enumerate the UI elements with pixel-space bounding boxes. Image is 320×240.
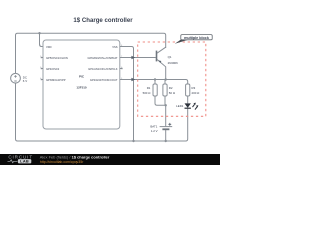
svg-text:multiple block: multiple block bbox=[184, 36, 210, 40]
svg-text:1$ Charge controller: 1$ Charge controller bbox=[73, 17, 133, 24]
pin stub GP1 unconnected bbox=[120, 68, 122, 70]
battery BAT1 bbox=[160, 123, 173, 141]
LED LED1 bbox=[185, 103, 199, 110]
footer CircuitLab logo bbox=[8, 155, 33, 164]
svg-text:GP2/AN2/T0CKI/COUT: GP2/AN2/T0CKI/COUT bbox=[90, 78, 118, 82]
svg-text:R3: R3 bbox=[192, 86, 196, 90]
svg-text:6 V: 6 V bbox=[23, 79, 27, 83]
transistor Q1 2N3906 bbox=[157, 47, 166, 79]
svg-text:GP3/MCLR/VPP: GP3/MCLR/VPP bbox=[46, 78, 66, 82]
resistor R1 bbox=[154, 80, 156, 85]
svg-text:200 Ω: 200 Ω bbox=[192, 91, 201, 95]
wire GP0 to base of Q1 bbox=[120, 57, 156, 59]
IC U1 PIC12F510 body bbox=[43, 40, 120, 129]
svg-text:BAT1: BAT1 bbox=[150, 125, 157, 129]
svg-text:Q1: Q1 bbox=[168, 55, 172, 59]
wire VDD branch bbox=[40, 33, 44, 46]
svg-text:2N3906: 2N3906 bbox=[168, 61, 179, 65]
svg-text:VSS: VSS bbox=[112, 45, 118, 49]
svg-text:VDD: VDD bbox=[46, 45, 52, 49]
svg-text:GP1/AN1/CIN-/ICSPCLK: GP1/AN1/CIN-/ICSPCLK bbox=[88, 67, 118, 71]
svg-text:GP0/AN0/CIN+/ICSPDAT: GP0/AN0/CIN+/ICSPDAT bbox=[88, 56, 118, 60]
svg-text:500 Ω: 500 Ω bbox=[143, 91, 152, 95]
wire VSS to ground column bbox=[120, 47, 134, 142]
footer bar bbox=[0, 154, 220, 165]
node marker on GP0 wire bbox=[131, 56, 135, 60]
svg-text:1.2 V: 1.2 V bbox=[151, 129, 158, 133]
node marker on GP2 wire bbox=[131, 78, 135, 82]
pin stub GP5 unconnected bbox=[41, 57, 43, 59]
callout multiple block bbox=[175, 35, 212, 44]
node R1/R2 bottom junction bbox=[165, 104, 167, 106]
pin stub GP4 unconnected bbox=[41, 68, 43, 70]
svg-text:50 Ω: 50 Ω bbox=[169, 91, 176, 95]
svg-text:LAB: LAB bbox=[20, 159, 29, 164]
wire bottom rail from V1 to LED bottom bbox=[16, 83, 188, 141]
svg-text:http://circuitlab.com/cpqv35r: http://circuitlab.com/cpqv35r bbox=[40, 160, 84, 164]
resistor R3 bbox=[186, 84, 190, 96]
node junction rail/VDD bbox=[38, 32, 40, 34]
node emitter/R2 junction bbox=[165, 78, 167, 80]
svg-text:R1: R1 bbox=[147, 86, 151, 90]
svg-text:LED1: LED1 bbox=[176, 104, 184, 108]
node VSS/bottom-rail junction bbox=[132, 140, 134, 142]
svg-text:GP5/OSC1/CLKIN: GP5/OSC1/CLKIN bbox=[46, 56, 68, 60]
node battery/bottom-rail junction bbox=[165, 140, 167, 142]
voltage source V1 bbox=[11, 73, 21, 83]
node R1 top junction bbox=[154, 78, 156, 80]
annotation dashed box around driver block bbox=[138, 42, 206, 116]
resistor R2 bbox=[163, 84, 167, 96]
svg-text:GP4/OSC2: GP4/OSC2 bbox=[46, 67, 60, 71]
svg-text:12F510: 12F510 bbox=[76, 86, 87, 90]
pin stub GP3 unconnected bbox=[41, 79, 43, 81]
svg-text:R2: R2 bbox=[169, 86, 173, 90]
wire top rail from V1 to collector column bbox=[16, 33, 166, 73]
wire GP2 to resistor top rail bbox=[120, 80, 188, 85]
svg-text:Alex Feb (fields) / 1$ charge: Alex Feb (fields) / 1$ charge controller bbox=[40, 155, 110, 159]
svg-text:PIC: PIC bbox=[79, 74, 85, 78]
